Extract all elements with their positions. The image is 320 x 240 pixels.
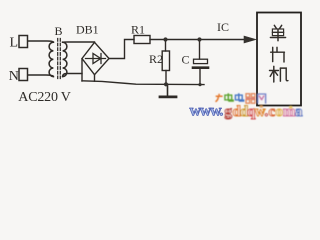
ground	[160, 84, 176, 97]
MCU block 单片机	[257, 13, 301, 106]
junction node R2 bottom	[164, 82, 168, 86]
svg-text:*: *	[259, 103, 264, 113]
resistor R1 body	[134, 36, 150, 44]
svg-text:N: N	[9, 69, 19, 84]
svg-text:L: L	[10, 36, 19, 51]
MCU text 机 (drawn strokes)	[270, 66, 288, 82]
terminal N	[19, 69, 28, 81]
svg-text:R2: R2	[149, 52, 163, 66]
resistor R2 body	[162, 51, 169, 71]
junction node R2 top	[163, 37, 167, 41]
svg-text:IC: IC	[217, 20, 229, 34]
capacitor C bottom plate	[193, 66, 208, 69]
wire bridge bottom corner down	[94, 75, 96, 82]
top rail after R1 to arrow	[150, 39, 245, 41]
watermark row1 电 blue	[235, 93, 243, 101]
transformer B primary winding	[49, 42, 53, 76]
MCU text 片 (drawn strokes)	[271, 47, 285, 62]
bottom rail	[82, 81, 204, 85]
svg-text:o: o	[276, 104, 284, 120]
transformer core lines	[58, 39, 61, 79]
junction node C top	[197, 37, 201, 41]
svg-text:a: a	[295, 104, 303, 120]
svg-text:g: g	[225, 104, 233, 120]
transformer B secondary winding	[63, 42, 67, 76]
watermark row1 电 green	[225, 93, 233, 101]
capacitor C branch wire	[199, 40, 201, 60]
watermark row1 广	[215, 94, 222, 102]
svg-text:R1: R1	[131, 23, 145, 37]
capacitor C top plate	[194, 59, 208, 63]
wire L to transformer	[28, 41, 53, 42]
bridge diode triangle	[93, 54, 101, 64]
junction node C bottom	[198, 83, 201, 86]
wire secondary bottom	[63, 74, 82, 77]
svg-text:AC220 V: AC220 V	[18, 90, 70, 105]
svg-text:C: C	[182, 53, 190, 67]
watermark row1 器	[246, 94, 256, 104]
bridge diode symbol	[86, 54, 106, 64]
terminal L	[19, 36, 28, 48]
svg-text:c: c	[269, 104, 276, 120]
resistor R2 branch wire	[165, 40, 167, 52]
svg-text:DB1: DB1	[76, 23, 99, 37]
wire secondary top to bridge	[63, 41, 95, 43]
wire bridge right corner to top rail	[109, 40, 134, 59]
wire R2 to bottom rail	[165, 71, 167, 85]
svg-text:www.: www.	[190, 102, 224, 119]
wire AC left corner down	[81, 59, 83, 81]
background paper	[0, 0, 305, 121]
watermark row2 colorful letters	[225, 103, 304, 120]
svg-text:*: *	[289, 104, 294, 114]
MCU text 单 (drawn strokes)	[270, 25, 285, 41]
svg-text:B: B	[55, 24, 63, 38]
wire C to bottom rail	[199, 69, 201, 85]
arrow into MCU block	[244, 36, 256, 43]
wire N to transformer	[28, 75, 53, 77]
bridge rectifier DB1 diamond	[82, 42, 109, 74]
watermark row1 网	[258, 94, 266, 104]
